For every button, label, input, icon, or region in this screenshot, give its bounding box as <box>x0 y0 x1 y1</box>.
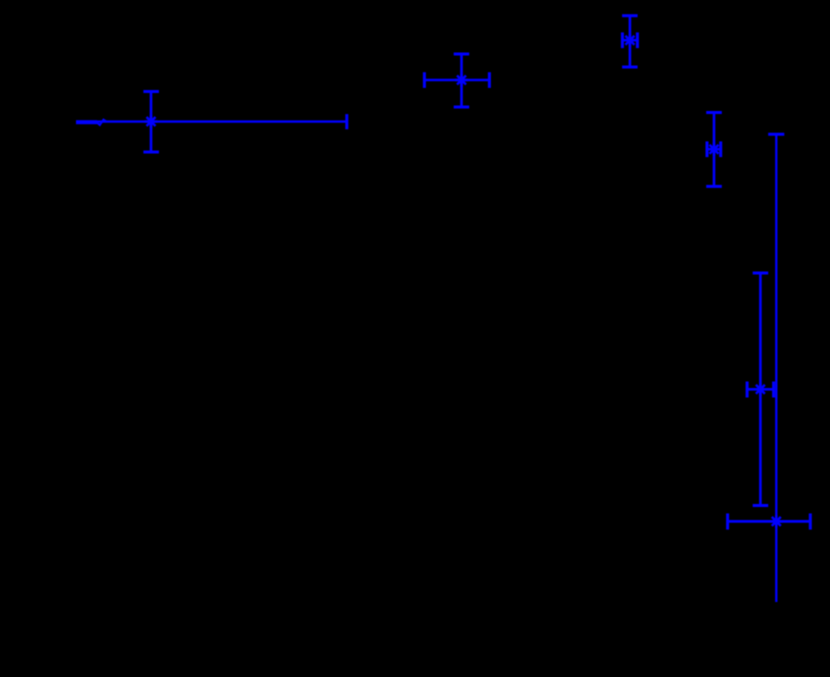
point P1 y error bar line <box>150 92 153 153</box>
point P6 x error bar right cap <box>809 513 812 529</box>
point P6 x error bar line <box>728 520 811 523</box>
point P5 y error bar line <box>759 273 762 506</box>
point P2 y error bar top cap <box>454 53 470 56</box>
point P5 x error bar right cap <box>772 382 775 398</box>
point P2 x error bar left cap <box>423 72 426 88</box>
point P3 y error bar top cap <box>622 14 638 17</box>
point P5 y error bar top cap <box>753 272 769 275</box>
point P6 asterisk marker <box>770 515 783 528</box>
point P3 y error bar bottom cap <box>622 66 638 69</box>
point P4 x error bar right cap <box>719 141 722 157</box>
point P1 y error bar bottom cap <box>143 151 159 154</box>
point P4 x error bar left cap <box>706 141 709 157</box>
point P2 x error bar right cap <box>488 72 491 88</box>
point P2 y error bar line <box>460 54 463 107</box>
point P1 x error bar line (clipped at left plot edge) <box>76 120 347 122</box>
point P1 asterisk marker <box>145 115 158 128</box>
point P3 x error bar line <box>622 39 637 42</box>
point P5 asterisk marker <box>754 383 767 396</box>
point P1 overlapping curve thick segment <box>76 120 97 124</box>
point P6 x error bar left cap <box>726 513 729 529</box>
point P3 x error bar right cap <box>636 32 639 48</box>
point P4 y error bar line <box>713 113 716 187</box>
point P2 asterisk marker <box>455 74 468 87</box>
point P5 y error bar bottom cap <box>753 504 769 507</box>
point P3 asterisk marker <box>624 34 637 47</box>
point P5 x error bar line <box>747 388 774 391</box>
point P4 x error bar line <box>707 148 721 151</box>
point P2 y error bar bottom cap <box>454 106 470 109</box>
point P5 x error bar left cap <box>746 382 749 398</box>
point P3 y error bar line <box>629 16 632 67</box>
point P4 y error bar top cap <box>706 111 722 114</box>
point P4 asterisk marker <box>708 143 721 156</box>
point P1 y error bar top cap <box>143 90 159 93</box>
point P2 x error bar line <box>424 79 489 82</box>
point P1 overlapping curve wiggle <box>97 120 107 125</box>
point P1 x error bar right cap <box>345 114 348 129</box>
point P4 y error bar bottom cap <box>706 185 722 188</box>
point P6 y error bar line (bottom clipped at plot edge) <box>775 134 777 602</box>
point P3 x error bar left cap <box>621 32 624 48</box>
point P6 y error bar top cap <box>768 133 784 136</box>
